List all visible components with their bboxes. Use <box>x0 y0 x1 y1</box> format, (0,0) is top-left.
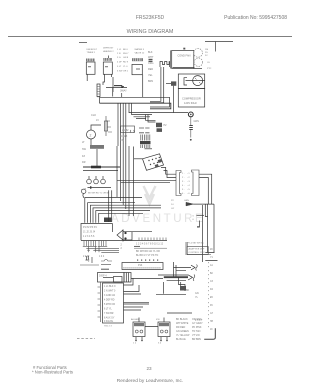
ground wire drop <box>190 117 192 138</box>
svg-text:BL BLUE: BL BLUE <box>176 338 186 341</box>
svg-text:2 N WHT 0: 2 N WHT 0 <box>104 291 116 293</box>
wire pair low <box>80 263 111 266</box>
bus stub lines right <box>205 253 217 261</box>
svg-text:DISP 4: DISP 4 <box>99 275 107 278</box>
svg-text:- 3: - 3 <box>187 181 190 183</box>
connector pin labels <box>182 173 190 195</box>
svg-text:WIRING DIAGRAM: WIRING DIAGRAM <box>127 29 174 35</box>
svg-text:Publication No: 5995427508: Publication No: 5995427508 <box>224 15 287 21</box>
svg-text:- 1: - 1 <box>187 173 190 175</box>
pin label column left <box>117 49 129 73</box>
display board top edge with pins <box>139 238 166 241</box>
svg-text:3 -: 3 - <box>182 181 185 183</box>
svg-text:1M: 1M <box>205 49 208 51</box>
harness drop wires <box>118 103 188 146</box>
narrow junction box <box>97 84 100 97</box>
dark connector row <box>140 141 151 144</box>
svg-text:YL 0: YL 0 <box>123 66 128 68</box>
hook symbols <box>130 130 134 132</box>
wire to grommet long <box>129 103 188 112</box>
fan motor bracket <box>150 62 169 103</box>
left label column <box>82 141 87 164</box>
wire top stubs group <box>79 42 233 52</box>
wire top stub <box>79 42 87 44</box>
svg-text:ICE: ICE <box>156 319 160 321</box>
svg-text:3C: 3C <box>205 55 208 57</box>
svg-text:- 5: - 5 <box>187 189 190 191</box>
svg-text:- 6: - 6 <box>187 193 190 195</box>
svg-text:5 -: 5 - <box>182 189 185 191</box>
svg-text:H8: H8 <box>210 321 214 323</box>
connector hatch cluster right <box>156 123 167 132</box>
svg-text:WH 7: WH 7 <box>123 53 129 55</box>
svg-text:SW: SW <box>82 148 87 151</box>
P5 footer labels <box>171 200 175 210</box>
stepped wire jog <box>197 215 205 227</box>
board pins below <box>83 241 119 253</box>
svg-text:3 GND GN: 3 GND GN <box>104 295 115 297</box>
svg-text:1 L1 BLK 9: 1 L1 BLK 9 <box>104 286 116 288</box>
relay inner circles <box>135 330 167 333</box>
junction blob <box>104 218 111 223</box>
svg-text:GN 8: GN 8 <box>123 57 129 59</box>
svg-text:5 MTR OR: 5 MTR OR <box>104 304 115 306</box>
svg-text:P2: P2 <box>171 200 174 202</box>
pin tiny labels <box>83 256 105 258</box>
svg-text:2: 2 <box>88 260 90 263</box>
dashed circle lower <box>194 58 202 66</box>
corner bracket bottom right <box>204 328 215 339</box>
svg-text:OL: OL <box>207 62 211 64</box>
svg-text:D4 E5: D4 E5 <box>121 135 128 138</box>
wire relay K2 right leg <box>112 74 114 92</box>
svg-text:CONTROL 120V: CONTROL 120V <box>189 252 206 254</box>
svg-text:1 L1: 1 L1 <box>117 49 122 51</box>
svg-text:* Non-Illustrated Parts: * Non-Illustrated Parts <box>32 370 73 375</box>
nested corner wires to control board <box>85 198 161 223</box>
svg-text:Z0: Z0 <box>210 249 213 251</box>
relay bottom labels <box>133 343 162 345</box>
svg-text:DEFROST: DEFROST <box>87 49 98 51</box>
svg-text:COND FAN: COND FAN <box>178 55 191 58</box>
svg-text:ADVENTURE: ADVENTURE <box>111 213 205 225</box>
ground connector stack <box>189 126 193 130</box>
wire fan leg left <box>150 67 161 101</box>
svg-text:COMPRESSOR: COMPRESSOR <box>182 97 201 101</box>
svg-text:CLK: CLK <box>91 113 96 117</box>
tick marks right <box>106 121 112 132</box>
svg-text:FRS23KF5D: FRS23KF5D <box>136 15 165 21</box>
svg-text:BK BLACK: BK BLACK <box>176 318 188 321</box>
inline connector upper pair <box>174 262 198 277</box>
wire box F bottom <box>173 67 195 69</box>
svg-text:GY GRAY: GY GRAY <box>192 322 203 325</box>
svg-text:VALVE 12: VALVE 12 <box>135 52 146 55</box>
svg-text:BR BRN: BR BRN <box>192 338 201 341</box>
svg-text:BK: BK <box>186 289 190 292</box>
svg-text:1 2 3 4 5 6: 1 2 3 4 5 6 <box>83 235 95 238</box>
thermostat circle <box>87 125 102 145</box>
svg-text:OR ORG: OR ORG <box>192 318 202 321</box>
display board text rows <box>134 243 167 258</box>
svg-text:GY: GY <box>171 208 175 210</box>
svg-text:VT VIO: VT VIO <box>192 334 200 337</box>
svg-text:YL YELLOW: YL YELLOW <box>176 334 190 337</box>
svg-text:5 LT: 5 LT <box>117 66 122 68</box>
wire under lamps <box>88 187 112 189</box>
svg-text:TIMER 1: TIMER 1 <box>87 52 96 54</box>
svg-text:1 2 3 4 5 6 7 8 9 10 11 12: 1 2 3 4 5 6 7 8 9 10 11 12 <box>136 243 164 246</box>
thermostat stub top left <box>81 188 86 198</box>
svg-text:OR 1: OR 1 <box>123 71 129 73</box>
svg-text:BLK: BLK <box>148 51 153 54</box>
svg-text:3 G: 3 G <box>117 57 121 59</box>
svg-text:J3: J3 <box>96 119 99 122</box>
svg-text:D4: D4 <box>210 289 214 291</box>
wire fan leg right <box>150 67 164 103</box>
dispenser narrow section <box>124 273 131 283</box>
svg-text:GRN: GRN <box>184 200 189 202</box>
svg-text:4 DEF RD: 4 DEF RD <box>104 300 115 302</box>
svg-text:3 4: 3 4 <box>158 343 162 345</box>
thermistor vertical <box>104 116 107 136</box>
terminal board pin rows <box>104 286 116 323</box>
svg-text:6 LT YL: 6 LT YL <box>104 309 113 311</box>
svg-text:1 -: 1 - <box>182 173 185 175</box>
svg-text:P13: P13 <box>138 264 143 267</box>
svg-text:E5: E5 <box>210 297 214 299</box>
svg-text:9 ICE BL: 9 ICE BL <box>104 321 114 323</box>
wire into board top right <box>156 282 186 294</box>
svg-text:2: 2 <box>90 134 92 138</box>
compressor motor circle <box>186 76 205 86</box>
svg-text:WHT: WHT <box>148 56 154 59</box>
svg-text:7 SW BR: 7 SW BR <box>104 313 114 315</box>
thick wire segment <box>83 166 120 171</box>
svg-text:P9 J2 BK WH 5C: P9 J2 BK WH 5C <box>187 243 204 245</box>
svg-text:G7: G7 <box>210 313 214 315</box>
lamp symbols row <box>87 176 111 189</box>
svg-text:A1 B2: A1 B2 <box>122 129 129 132</box>
control board pin text <box>83 226 97 238</box>
svg-text:YEL: YEL <box>148 74 153 77</box>
terminal strip box <box>122 263 163 270</box>
water valve coil <box>132 58 143 75</box>
svg-text:WATER 3: WATER 3 <box>135 48 145 51</box>
connector pin ticks lower <box>141 145 150 148</box>
ground dot <box>190 139 192 141</box>
wire stub pair C <box>146 115 156 123</box>
relay labels <box>131 318 160 321</box>
svg-text:YL: YL <box>195 296 199 299</box>
plug on compressor <box>166 81 176 112</box>
control board box <box>81 224 167 241</box>
dots row <box>137 260 158 261</box>
defrost label box <box>186 242 211 255</box>
bus verticals lower <box>203 204 215 262</box>
wire dispenser to connectors <box>131 277 163 279</box>
tiny label row above corners <box>88 193 110 195</box>
svg-text:J1 J2 J3 J4: J1 J2 J3 J4 <box>83 231 96 234</box>
svg-text:DR: DR <box>82 161 86 164</box>
header rule <box>8 36 292 38</box>
svg-text:6 -: 6 - <box>182 193 185 195</box>
svg-text:14: 14 <box>171 204 174 206</box>
compressor box upper <box>178 74 204 89</box>
svg-text:BRN: BRN <box>148 80 153 83</box>
svg-text:RED: RED <box>148 68 153 71</box>
relay K1 coil <box>86 59 95 82</box>
svg-text:- 4: - 4 <box>187 185 190 187</box>
tall board outer edge <box>98 282 101 322</box>
wire horizontal low <box>167 312 192 314</box>
svg-text:Y1: Y1 <box>210 257 214 259</box>
svg-text:B2: B2 <box>210 273 214 275</box>
wire relay K2 left leg <box>103 74 105 85</box>
label box mid-left <box>121 126 135 133</box>
connector pin ticks upper <box>141 135 150 141</box>
svg-text:1 2: 1 2 <box>133 343 137 345</box>
svg-text:TN TAN: TN TAN <box>192 330 201 333</box>
svg-text:8 AUX GY: 8 AUX GY <box>104 317 115 320</box>
svg-text:ADAPTIVE DEF: ADAPTIVE DEF <box>189 248 205 251</box>
svg-text:DEFROST: DEFROST <box>103 48 114 50</box>
wire under connector <box>145 148 153 150</box>
svg-text:BK 6: BK 6 <box>123 49 129 51</box>
dispenser box left <box>98 273 125 283</box>
small text right of board <box>195 292 199 299</box>
svg-text:2 N: 2 N <box>117 53 121 55</box>
svg-text:WH WHITE: WH WHITE <box>176 322 189 325</box>
tiny text left bottom <box>88 260 90 263</box>
wire pair lower <box>132 103 153 114</box>
svg-text:GRN: GRN <box>194 120 200 123</box>
svg-text:ORG: ORG <box>148 62 154 65</box>
wires from connector to right bus <box>117 168 212 205</box>
svg-text:A1: A1 <box>210 264 214 267</box>
svg-text:23: 23 <box>146 366 152 371</box>
dark segment under board <box>134 245 140 247</box>
svg-text:3WAY: 3WAY <box>120 90 127 93</box>
svg-text:2S: 2S <box>205 52 208 54</box>
wire stub pair B <box>134 117 151 119</box>
svg-text:120V 60Hz: 120V 60Hz <box>184 101 198 105</box>
wire verticals right of blob <box>109 190 112 222</box>
inline connector lower thick <box>158 275 195 281</box>
svg-text:PTC: PTC <box>207 68 212 70</box>
svg-text:F6: F6 <box>210 305 213 307</box>
svg-text:2 -: 2 - <box>182 177 185 179</box>
dashed stub bottom left <box>77 338 95 340</box>
dashed circle upper <box>194 48 203 57</box>
svg-text:4 DF: 4 DF <box>117 62 122 64</box>
svg-text:P1 P2 P3 P4: P1 P2 P3 P4 <box>83 226 97 229</box>
svg-text:4 -: 4 - <box>182 185 185 187</box>
wire color legend column <box>176 318 203 341</box>
wires off terminal board <box>124 279 150 311</box>
svg-text:- 2: - 2 <box>187 177 190 179</box>
svg-text:BK WH RD YL OR BL: BK WH RD YL OR BL <box>88 193 110 195</box>
harness label marks <box>210 249 214 331</box>
defrost label text <box>189 248 206 254</box>
svg-text:RD 9: RD 9 <box>123 62 129 64</box>
compressor label box <box>178 89 204 108</box>
heater relay box 1 <box>133 322 145 340</box>
svg-text:FZ: FZ <box>82 155 85 158</box>
pin label column right <box>148 51 154 83</box>
bus double line <box>98 97 171 109</box>
wire between relays <box>139 318 164 327</box>
svg-text:J9: J9 <box>210 329 213 331</box>
svg-text:2: 2 <box>121 245 123 247</box>
svg-text:HEATER 2: HEATER 2 <box>103 50 114 53</box>
heater bar component <box>90 145 104 166</box>
wire water valve leg <box>142 75 144 98</box>
svg-text:P2: P2 <box>164 124 168 127</box>
tall terminal board <box>103 283 124 323</box>
dark arrow connector <box>184 200 214 206</box>
terminal marks right of circles <box>205 49 212 70</box>
wire drop to BK <box>179 277 190 292</box>
jog labels <box>193 216 195 222</box>
connector plug P5 <box>176 171 181 196</box>
svg-text:2: 2 <box>121 248 123 250</box>
T bracket top right <box>205 42 233 52</box>
text row above label box <box>187 243 204 245</box>
tilted connector P1 <box>134 154 164 171</box>
connector jack P5 <box>192 170 200 196</box>
svg-text:RD RED: RD RED <box>176 326 185 329</box>
svg-text:C3: C3 <box>210 281 214 283</box>
svg-text:GN GREEN: GN GREEN <box>176 330 189 333</box>
harness dashed label column <box>208 262 210 330</box>
defrost thermostat symbols <box>86 256 92 264</box>
relay leg dots <box>135 340 168 342</box>
wire bundle left verticals <box>117 146 134 216</box>
dark bar fuse <box>101 268 109 270</box>
svg-text:1 0 4: 1 0 4 <box>99 256 105 258</box>
svg-text:Rendered by LeadVenture, Inc.: Rendered by LeadVenture, Inc. <box>117 378 183 384</box>
grommet symbol <box>188 112 193 117</box>
condenser fan box <box>171 48 202 69</box>
svg-text:GN: GN <box>195 292 199 295</box>
switch hump symbol <box>101 259 112 261</box>
svg-text:TB1 2 3: TB1 2 3 <box>104 326 112 328</box>
terminal strip hatch <box>124 267 162 269</box>
watermark logo V <box>144 186 156 204</box>
connector dash rows <box>139 128 150 133</box>
arrow 3 WAY <box>114 86 124 88</box>
svg-text:BK WH RD GN YL OR: BK WH RD GN YL OR <box>136 250 160 253</box>
svg-text:PK PINK: PK PINK <box>192 326 202 329</box>
relay K2 coil <box>103 56 113 93</box>
heater relay box 2 <box>158 322 170 340</box>
flag transformer symbol <box>117 230 152 242</box>
svg-text:BL BR GY VT PK TN: BL BR GY VT PK TN <box>136 254 159 257</box>
svg-text:AUGER: AUGER <box>131 318 139 321</box>
svg-text:LT: LT <box>82 141 85 144</box>
